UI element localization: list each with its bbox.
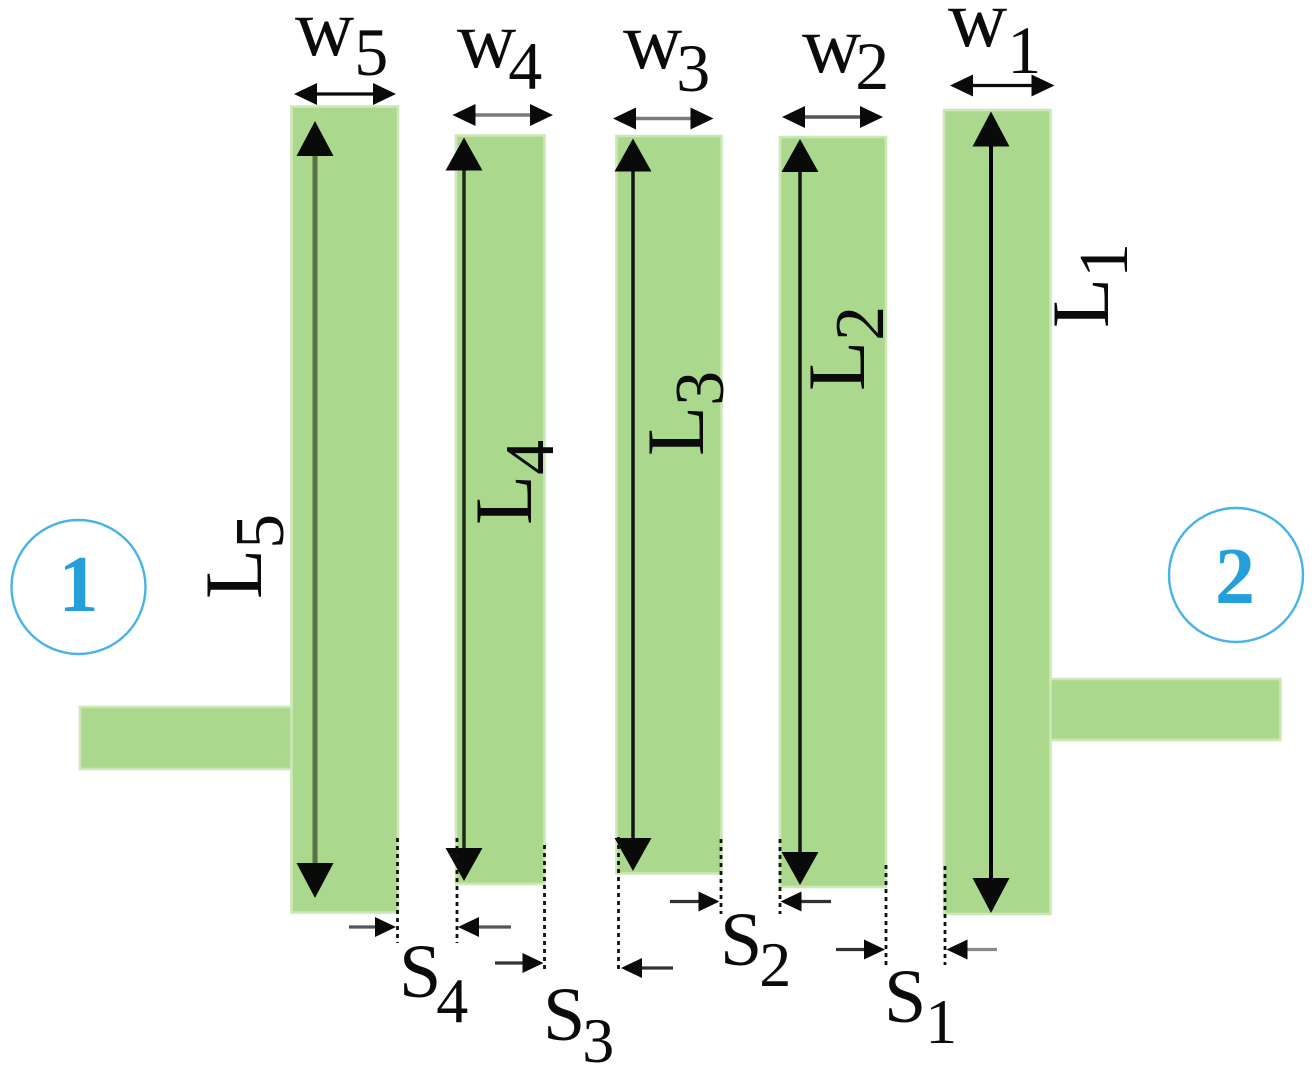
svg-text:1: 1: [59, 541, 99, 629]
left feed line (port 1): [80, 707, 294, 769]
S1 gap arrow left part: [836, 948, 870, 951]
label L4 (rotated): [458, 440, 569, 525]
svg-text:2: 2: [1215, 533, 1255, 621]
S4 gap arrow right part: [473, 925, 511, 928]
extension line at strip1 left edge: [944, 866, 947, 965]
label L1 (rotated): [1035, 243, 1143, 328]
extension line at strip3 left edge: [617, 837, 620, 971]
S2 gap arrow right part: [796, 900, 832, 903]
extension line at strip2 left edge: [779, 839, 782, 914]
L3 length dimension arrow (in strip 3): [631, 166, 635, 845]
S3 gap arrow right part: [636, 966, 673, 969]
w4 width dimension arrow: [470, 113, 537, 117]
L5 length dimension arrow (in strip 5): [313, 150, 318, 869]
svg-text:L5: L5: [188, 514, 299, 599]
S3 gap arrow left part: [495, 961, 529, 964]
svg-text:S4: S4: [399, 930, 468, 1036]
svg-text:S3: S3: [543, 973, 614, 1072]
L4 length dimension arrow (in strip 4): [462, 165, 466, 855]
L2 length dimension arrow (in strip 2): [798, 166, 802, 858]
port 2 circle: [1169, 508, 1303, 642]
w2 width dimension arrow: [799, 115, 866, 118]
w5 width dimension arrow: [311, 92, 379, 95]
svg-text:w4: w4: [457, 0, 542, 104]
resonator strip 1: [944, 110, 1051, 914]
extension line at strip5 right edge: [396, 838, 399, 943]
extension line at strip2 right edge: [885, 865, 888, 965]
extension line at strip4 right edge: [543, 845, 546, 971]
svg-text:S1: S1: [884, 955, 957, 1057]
S1 gap arrow right part: [962, 948, 998, 951]
resonator strip 2: [780, 137, 886, 887]
svg-text:w2: w2: [802, 0, 889, 104]
label L5 (rotated): [188, 514, 299, 599]
L1 length dimension arrow (in strip 1): [989, 141, 993, 885]
port 1 circle: [12, 520, 146, 654]
resonator strip 4: [456, 136, 545, 885]
svg-text:w1: w1: [948, 0, 1041, 88]
resonator strip 5: [292, 107, 399, 913]
w3 width dimension arrow: [630, 117, 697, 121]
extension line at strip3 right edge: [720, 839, 723, 914]
right feed line (port 2): [1049, 679, 1281, 740]
svg-text:w3: w3: [623, 0, 710, 106]
w1 width dimension arrow: [967, 84, 1038, 87]
svg-text:w5: w5: [295, 0, 388, 90]
S2 gap arrow left part: [670, 900, 705, 903]
resonator strip 3: [617, 136, 722, 874]
S4 gap arrow left part: [349, 925, 381, 928]
label L3 (rotated): [630, 371, 739, 456]
label L2 (rotated): [791, 306, 899, 391]
extension line at strip4 left edge: [456, 838, 459, 943]
